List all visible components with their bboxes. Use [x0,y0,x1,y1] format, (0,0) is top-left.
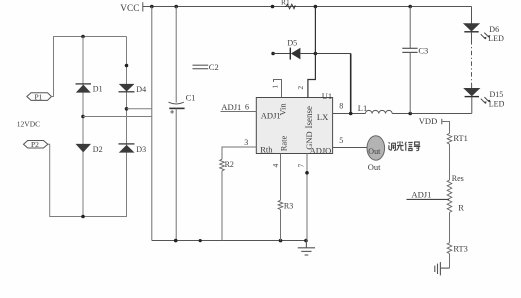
inductor L1 [358,103,392,113]
wire left mid to VCC drop [83,116,152,118]
junction dot right above D4 [125,64,129,68]
ground sideways (RT3) [435,262,450,275]
svg-text:Res: Res [452,174,464,183]
label dimming signal (调光信号) [389,141,421,150]
pin 4 lead / resistor R3 [278,154,293,241]
wire pin 5 to Out [333,147,368,149]
pin 1 lead [274,80,282,98]
svg-text:R2: R2 [225,160,234,169]
svg-text:VDD: VDD [419,116,437,126]
svg-text:2: 2 [296,86,305,90]
capacitor C1 [169,7,196,241]
junction dot top rail 2 [174,5,178,9]
svg-text:4: 4 [271,164,280,168]
svg-text:Isense: Isense [304,106,314,129]
svg-text:C3: C3 [418,45,428,55]
junction dot rail R3 [279,239,283,243]
wire pin 3 to R2 [222,147,256,159]
svg-text:ADJ1: ADJ1 [411,190,431,200]
ground main [298,241,315,256]
junction dot top rail 3 [271,5,275,9]
resistor RT1 [447,133,468,180]
svg-text:Vin: Vin [278,103,288,116]
connector P2 [24,140,48,149]
wire pin 8 to L1 [333,113,366,115]
led D15 [463,88,504,108]
led D6 [463,7,504,44]
diode D3 [119,144,147,154]
svg-text:Out: Out [368,162,381,172]
potentiometer Res / R [447,174,464,243]
svg-text:ADJO: ADJO [310,146,332,156]
junction dot bridge bottom [81,215,85,219]
diode D5 [271,38,350,59]
svg-text:D15: D15 [490,90,504,99]
svg-text:3: 3 [244,138,248,147]
junction dot D5 right [314,52,318,56]
svg-text:D1: D1 [93,85,103,94]
junction dot rail C1 [174,239,178,243]
wire vertical VCC drop [151,7,153,241]
svg-text:R: R [458,203,464,213]
resistor R2 [220,159,234,240]
power label VCC [120,2,143,14]
svg-text:C1: C1 [186,92,196,102]
wire bridge left column [82,37,84,217]
svg-text:P2: P2 [31,140,39,149]
svg-text:12VDC: 12VDC [17,119,40,128]
wire bridge right column [126,37,128,217]
wire top rail to D5 junction [314,7,316,54]
wire D5 right down to LX [350,54,352,114]
wire ADJ1 wiper [407,198,450,200]
resistor R1 [281,0,296,9]
wire P1 to bridge top [52,37,127,97]
junction dot top rail 1 [150,5,154,9]
svg-text:D3: D3 [136,145,146,154]
connector P1 [27,93,52,102]
power label VDD [419,116,450,134]
svg-text:Rate: Rate [278,135,288,151]
svg-text:6: 6 [245,103,249,112]
svg-text:LED: LED [488,34,504,43]
pin 7 GND lead [306,154,308,241]
svg-text:D2: D2 [93,145,103,154]
wire D5 to pin 2 [308,54,316,98]
svg-text:P1: P1 [35,93,43,102]
svg-text:7: 7 [297,164,306,168]
wire bottom rail [152,240,307,242]
svg-text:C2: C2 [209,62,219,72]
svg-text:U1: U1 [322,91,332,101]
junction dot LX D5 [349,112,353,116]
capacitor C2 [193,62,219,72]
svg-text:R1: R1 [281,0,290,7]
wire D15 down to LX rail [471,97,473,114]
junction dot rail mid [199,239,202,242]
wire pin 6 [221,111,257,113]
svg-text:R3: R3 [284,201,293,210]
wire right mid to VCC drop [127,108,152,110]
resistor RT3 [447,243,468,268]
capacitor C3 [402,7,428,114]
svg-text:RT1: RT1 [453,134,467,143]
wire L1 to LED column [392,113,472,115]
svg-text:LX: LX [317,112,328,122]
junction dot rail gnd [304,239,308,243]
wire top VCC rail [143,6,472,8]
svg-text:D4: D4 [136,85,146,94]
diode D2 [76,144,103,154]
svg-text:D6: D6 [489,25,499,34]
svg-text:VCC: VCC [120,4,139,14]
junction dot top rail C3 [408,5,412,9]
IC U1 body [256,98,332,154]
svg-text:RT3: RT3 [453,245,467,254]
diode D4 [119,84,147,94]
svg-text:ADJ1: ADJ1 [221,102,241,112]
svg-text:Rth: Rth [260,145,273,155]
svg-text:LED: LED [489,99,505,108]
junction dot C3 bottom [408,112,412,116]
svg-text:D5: D5 [287,38,297,47]
junction dot left mid [81,115,85,119]
junction dot pin 7 [305,171,309,175]
svg-text:Out: Out [368,147,381,156]
diode D1 [76,84,103,94]
junction dot bridge top [81,35,85,39]
junction dot top rail 4 [314,5,318,9]
junction dot right below D4 [125,107,129,111]
svg-text:8: 8 [339,102,343,111]
svg-text:5: 5 [339,136,343,145]
out bubble [367,136,385,160]
wire dashed LED string [471,32,473,40]
svg-text:1: 1 [271,85,280,89]
wire P2 to bridge bottom [48,144,127,216]
